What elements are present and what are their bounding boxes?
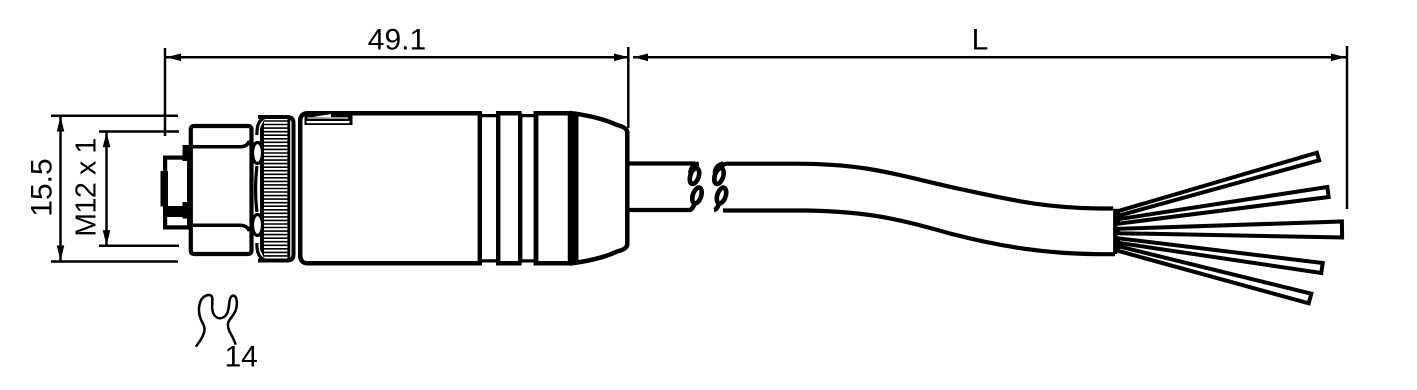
svg-text:L: L [972, 24, 989, 57]
svg-text:14: 14 [225, 341, 258, 374]
svg-text:M12 x 1: M12 x 1 [71, 138, 103, 237]
svg-text:15.5: 15.5 [26, 158, 59, 216]
svg-text:49.1: 49.1 [368, 24, 426, 57]
